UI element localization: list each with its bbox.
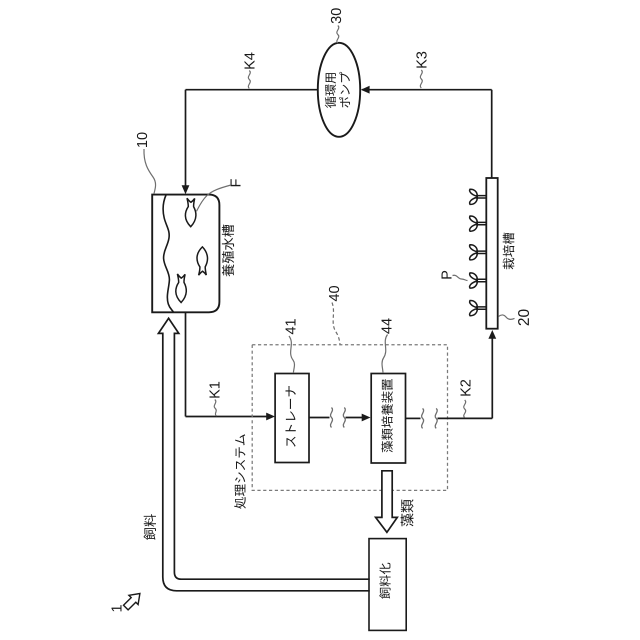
leader from P to plant [453,275,468,280]
label 30 [331,8,341,23]
leader squiggle K1 [214,400,216,417]
label P [442,271,452,279]
wire from strainer to algae device with break [309,417,330,419]
wire K1 vertical from tank bottom [185,312,187,416]
water surface wavy line [163,195,173,312]
arrowhead into pump right [361,86,370,94]
processing system 40 dashed box [252,345,447,491]
feed pipe hollow with arrowhead into tank bottom [158,318,369,591]
label 20 [518,309,529,325]
pump text 循環用ポンプ [325,73,336,108]
label F [231,179,241,186]
arrowhead into tank top [182,185,190,194]
text 飼料 [144,514,156,540]
arrowhead into strainer [266,413,275,421]
feed-conversion box 飼料化 [369,539,406,631]
wire K3 horizontal into pump [362,89,492,91]
feed box text 飼料化 [379,563,390,599]
label 10 [137,133,147,147]
reference arrow 1 (hollow, pointing NE) [124,594,140,610]
label 1 [112,605,122,611]
plant P1 [470,189,487,204]
plant P5 [470,300,487,315]
cultivation tank text 栽培槽 [503,233,515,270]
algae device text 藻類培養装置 [381,379,392,452]
leader from F to fish [197,185,232,211]
fish F3 (tail up, head down) [176,274,187,303]
leader squiggle 30 [337,26,339,44]
tank text 養殖水槽 [222,225,234,277]
fish F1 (tail up, head down) [185,198,196,227]
leader squiggle K2 [464,400,466,418]
wire K4 vertical down into tank [185,90,187,187]
wire K2 from algae device with break [406,417,421,419]
label K4 [245,53,255,69]
leader squiggle K3 [420,70,422,88]
cultivation tank 20 body [486,178,497,329]
leader from 20 to tank corner [498,315,514,319]
wire K1 horizontal into strainer [186,416,267,418]
leader from 10 to tank corner [144,149,156,194]
text 藻類 [401,499,414,526]
plant P2 [470,216,487,231]
label 40 [329,286,339,301]
label 44 [382,318,392,333]
wire K3 vertical from cultivation tank top [491,90,493,178]
arrowhead into algae device [362,414,371,422]
fish F2 (head up, tail down) [197,247,208,275]
arrowhead into cultivation tank bottom [488,330,496,339]
leader from 44 to algae device box [382,335,387,374]
break squiggle pair [330,408,332,428]
wire K4 horizontal from pump left to above tank [186,89,318,91]
break squiggle pair K2 [422,408,424,428]
label 41 [286,319,296,334]
circulation pump U30 ellipse [318,43,360,137]
label K3 [416,52,426,68]
wire K2 vertical into cultivation tank [491,338,493,418]
strainer text ストレーナ [286,386,296,447]
dashed leader from 40 to dashed box [332,303,340,345]
label K2 [460,380,470,396]
plant P4 [470,273,487,288]
strainer box 41 [275,374,309,463]
plant P3 [470,245,487,260]
leader from 41 to strainer box [289,336,294,373]
label K1 [210,382,220,398]
algae culture device box 44 [371,374,405,464]
leader squiggle K4 [248,71,250,89]
algae outline arrow down [376,471,398,533]
aquaculture tank 10 body [152,195,219,313]
text 処理システム [234,434,246,509]
